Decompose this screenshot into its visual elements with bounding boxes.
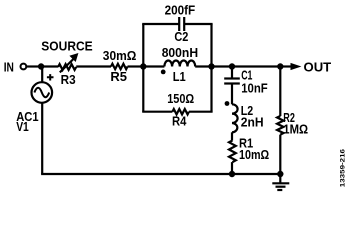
svg-text:1MΩ: 1MΩ [283, 122, 308, 137]
wire OUT stub [280, 65, 291, 67]
svg-text:800nH: 800nH [162, 45, 198, 60]
svg-text:R3: R3 [61, 72, 76, 87]
wire IN to junction [27, 65, 41, 67]
node junction dot OUT [277, 63, 283, 69]
node junction dot box left [140, 63, 146, 69]
node junction dot C1 branch [229, 63, 235, 69]
node junction dot IN [38, 63, 44, 69]
capacitor C2 [178, 17, 180, 31]
resistor R3 [58, 64, 76, 70]
wire AC branch bottom [41, 103, 43, 175]
node junction dot bottom R1 [229, 171, 235, 177]
svg-text:C2: C2 [174, 29, 188, 44]
wire top branch right [184, 23, 212, 25]
wire R1 to bottom [231, 162, 233, 174]
wire box right vertical [210, 24, 212, 112]
R3 arrow head [69, 53, 78, 62]
inductor L1 [164, 61, 195, 67]
wire C1 to L2 [231, 84, 233, 104]
wire L2 to R1 [231, 132, 233, 140]
wire bottom branch left [142, 111, 172, 113]
svg-text:13359-216: 13359-216 [340, 148, 347, 187]
svg-text:V1: V1 [16, 119, 29, 134]
wire R3 arrow shaft [60, 58, 75, 73]
wire R5 to box [128, 65, 144, 67]
inductor L2 phase dot [225, 101, 230, 106]
svg-text:10nF: 10nF [241, 81, 268, 96]
node junction dot bottom ground [277, 171, 283, 177]
wire junction to R3 [41, 65, 58, 67]
wire box left to L1 [143, 65, 164, 67]
source AC1 circle [32, 82, 53, 103]
wire R3 to R5 [76, 65, 111, 67]
wire R2 branch upper [279, 67, 281, 117]
wire L1 to OUT node [195, 65, 280, 67]
node IN terminal [21, 64, 27, 70]
wire box left vertical [142, 24, 144, 112]
resistor R2 [277, 116, 283, 135]
svg-text:150Ω: 150Ω [167, 91, 194, 106]
source sine wave [34, 88, 49, 97]
node junction dot box right [208, 63, 214, 69]
ground stub [279, 174, 281, 183]
inductor L1 phase dot [161, 70, 166, 75]
wire top branch left [142, 23, 179, 25]
svg-text:2nH: 2nH [241, 115, 264, 130]
svg-text:IN: IN [4, 59, 14, 74]
wire R2 branch lower [279, 135, 281, 174]
resistor R5 [111, 64, 128, 69]
capacitor C1 [224, 77, 240, 79]
svg-text:30mΩ: 30mΩ [103, 48, 137, 63]
svg-text:200fF: 200fF [165, 2, 196, 17]
svg-text:R5: R5 [110, 69, 127, 84]
svg-text:OUT: OUT [304, 60, 332, 75]
wire bottom branch right [189, 111, 213, 113]
ground bars [272, 182, 289, 184]
svg-text:SOURCE: SOURCE [41, 38, 93, 53]
svg-text:R4: R4 [172, 113, 187, 128]
source plus sign [47, 74, 54, 80]
wire C1 top stub [231, 67, 233, 78]
svg-text:L1: L1 [173, 69, 186, 84]
resistor R4 [172, 109, 189, 114]
svg-text:10mΩ: 10mΩ [239, 147, 269, 162]
resistor R1 [229, 141, 236, 163]
inductor L2 [232, 104, 238, 132]
wire AC branch top [41, 67, 43, 83]
OUT arrow head [291, 63, 302, 70]
wire bottom [41, 173, 280, 175]
